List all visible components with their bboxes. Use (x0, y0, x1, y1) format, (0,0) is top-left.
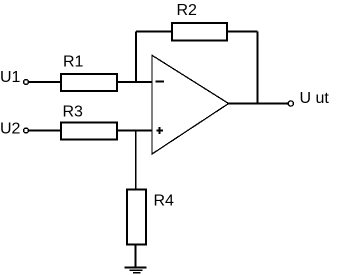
svg-text:R2: R2 (177, 2, 198, 19)
resistor R4 (127, 190, 146, 245)
wire feedback right vertical (257, 32, 259, 104)
resistor R2 (172, 23, 227, 41)
svg-text:U ut: U ut (300, 90, 330, 107)
op-amp U1 triangle (152, 55, 229, 154)
wire output (229, 103, 288, 105)
op-amp non-inverting input marker (156, 127, 163, 134)
terminal U ut (288, 101, 293, 106)
wire U1 to R1 (29, 81, 62, 83)
wire feedback left horizontal (136, 31, 172, 33)
wire non-inverting node to R4 (135, 131, 137, 190)
resistor R1 (61, 74, 117, 91)
svg-text:U2: U2 (0, 121, 21, 138)
wire R3 to op-amp non-inverting input (117, 130, 152, 132)
terminal U2 (24, 128, 29, 133)
wire R1 to op-amp inverting input (117, 81, 152, 83)
svg-text:R4: R4 (154, 193, 175, 210)
resistor R3 (61, 123, 117, 140)
wire feedback right horizontal (227, 31, 258, 33)
svg-text:R1: R1 (63, 53, 84, 70)
wire R4 to ground (135, 245, 137, 268)
wire feedback left vertical (135, 32, 137, 83)
terminal U1 (24, 80, 29, 85)
wire U2 to R3 (29, 130, 62, 132)
svg-text:R3: R3 (63, 104, 84, 121)
ground (125, 268, 147, 273)
svg-text:U1: U1 (0, 69, 21, 86)
op-amp inverting input marker (156, 81, 165, 83)
